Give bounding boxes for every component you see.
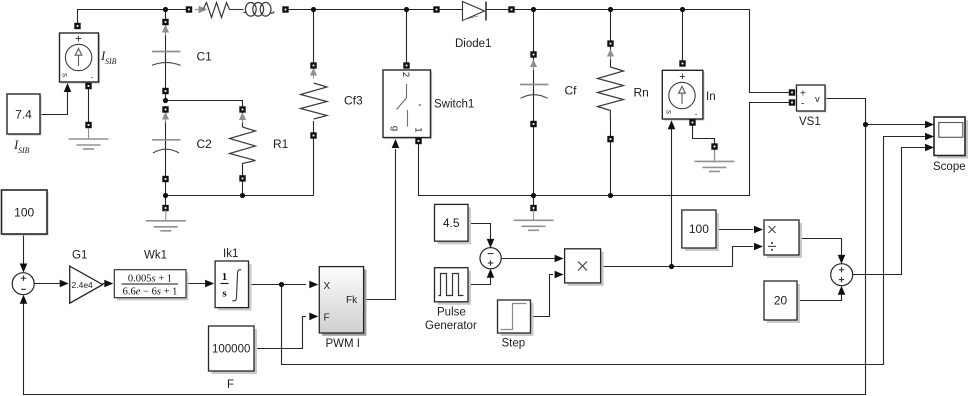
wire 7.4 to ISIB control (40, 92, 68, 115)
wire Cf3 bottom to left rail (313, 138, 315, 196)
ground right rail (514, 209, 554, 230)
pin port Rn top (607, 40, 613, 46)
pin port left rail ground (162, 205, 168, 211)
constant block 4.5 (435, 204, 472, 244)
pin arrow PWM F input (309, 313, 318, 321)
svg-text:g: g (390, 126, 401, 131)
pin arrow In s input (668, 120, 676, 129)
svg-text:Fk: Fk (346, 295, 358, 306)
svg-text:20: 20 (774, 294, 788, 308)
svg-text:X: X (324, 281, 331, 292)
voltmeter block VS1 (797, 85, 827, 113)
svg-text:Diode1: Diode1 (455, 38, 491, 50)
wire sum1 to gain G1 (34, 283, 61, 285)
constant block 20 (764, 281, 800, 323)
pin port Cf3 top (310, 62, 316, 68)
inductor series L (top) (244, 3, 275, 17)
wire Cf ground stem (533, 196, 535, 207)
summing junction sum1 (12, 273, 34, 295)
pin port R1 bottom (239, 175, 245, 181)
divide block (764, 220, 802, 258)
wire X branch to scope input2 (282, 137, 927, 365)
pin arrow PWM X input (309, 281, 318, 289)
capacitor Cf (520, 61, 549, 99)
wire product to divide input (733, 247, 754, 267)
svg-text:2: 2 (400, 72, 411, 77)
svg-text:1: 1 (222, 271, 228, 283)
svg-text:s: s (665, 110, 674, 114)
pin port C2 bottom (162, 176, 168, 182)
wire C1 bottom stem (165, 55, 167, 101)
wire top rail left segment (78, 10, 190, 24)
wire Rn bottom stem (610, 117, 612, 196)
junction node top rail at In (680, 7, 685, 12)
pin port VS1 minus (789, 99, 795, 105)
svg-text:Ik1: Ik1 (223, 248, 238, 260)
pin arrow Scope input1 (925, 121, 934, 129)
wire VS1 feedback down and left to sum1 (24, 125, 866, 395)
svg-text:6.6e − 6s + 1: 6.6e − 6s + 1 (123, 287, 178, 298)
pin arrow divide input1 (754, 226, 763, 234)
svg-text:Rn: Rn (634, 86, 649, 100)
wire Cf3 zigzag bottom lead (313, 121, 315, 133)
svg-text:Wk1: Wk1 (144, 250, 167, 262)
pin arrow Wk1 input (104, 280, 113, 288)
wire C2 top stem (165, 106, 167, 145)
junction node C1-C2 midpoint (163, 98, 168, 103)
constant block 100 (right) (682, 210, 719, 251)
junction node Ik1 output branch (279, 282, 284, 287)
junction node left rail at C2 (163, 193, 168, 198)
pin arrow Scope input3 (925, 144, 934, 152)
pin arrow G1 input (60, 280, 69, 288)
wire 100 constant to sum1 (23, 234, 25, 266)
ground below ISIB (69, 128, 109, 149)
wire step to product (530, 275, 553, 317)
pin arrow series branch direction (195, 7, 206, 13)
wire Cf mid stems (533, 58, 535, 96)
junction node VS1 output branch (863, 122, 868, 127)
svg-text:Generator: Generator (425, 320, 477, 332)
pulse generator block (435, 268, 472, 305)
pin port Cf bottom (530, 121, 536, 127)
junction node right rail at Rn (608, 193, 613, 198)
pin port Cf top (530, 51, 536, 57)
svg-text:100000: 100000 (212, 344, 250, 356)
wire Cf top stem (533, 10, 535, 53)
wire Cf3 top stem (313, 10, 315, 64)
pin port C2 top (162, 106, 168, 112)
pin port right rail ground (530, 205, 536, 211)
pin arrow Ik1 input (205, 280, 214, 288)
wire R1 top stem (242, 112, 244, 127)
pin port ISIB top (74, 23, 80, 29)
pin port VS1 plus (789, 89, 795, 95)
wire Wk1 to Ik1 (186, 283, 208, 285)
svg-text:7.4: 7.4 (15, 108, 32, 122)
pin arrow sum1 top input (20, 264, 28, 273)
svg-text:F: F (324, 313, 330, 324)
wire F constant to PWM F (254, 317, 306, 349)
capacitor C1 (152, 26, 181, 65)
wire R1 bottom stem (242, 163, 244, 196)
svg-text:100: 100 (689, 222, 709, 236)
wire In minus to ground (693, 124, 715, 144)
wire C1 top stem (165, 10, 167, 61)
junction node right rail at Cf (531, 193, 536, 198)
constant block 100 (reference) (2, 190, 49, 236)
pin arrow divide input2 (754, 243, 763, 251)
resistor R1 (230, 114, 256, 164)
pin arrow sum2 bottom input (838, 286, 846, 295)
svg-text:In: In (706, 91, 716, 103)
wire node C1-C2 branch to R1 (166, 101, 243, 110)
constant block F 100000 (209, 326, 258, 374)
svg-text:+: + (75, 34, 82, 46)
pin port series branch output (282, 6, 288, 12)
wire sum3 to product (501, 258, 557, 260)
svg-text:C1: C1 (197, 50, 213, 64)
step block (498, 300, 534, 336)
junction node top rail at Switch1 (404, 7, 409, 12)
wire R to L (230, 9, 244, 11)
ground left rail (146, 210, 186, 231)
pin arrow ISIB s input (64, 83, 72, 92)
junction node top rail at Rn (608, 7, 613, 12)
wire Rn top stem (610, 10, 612, 43)
svg-text:G1: G1 (72, 250, 87, 262)
junction node top rail at C1 (163, 7, 168, 12)
pin port Diode1 cathode (508, 6, 514, 12)
svg-text:-: - (91, 73, 94, 82)
scope block Scope (934, 117, 968, 159)
svg-text:Cf3: Cf3 (344, 94, 363, 108)
svg-text:Switch1: Switch1 (434, 99, 474, 111)
wire PWM Fk to switch gate (364, 149, 396, 300)
svg-text:Scope: Scope (933, 161, 966, 173)
svg-text:-: - (801, 99, 804, 110)
wire divide to sum2 (799, 239, 842, 257)
current source U In (662, 70, 704, 120)
svg-text:Step: Step (502, 338, 526, 350)
svg-text:v: v (815, 94, 820, 105)
wire VS1 output to scope junction (826, 99, 866, 125)
resistor Cf3 (301, 69, 328, 119)
pin port Diode1 anode (433, 6, 439, 12)
switch U Switch1 (383, 70, 432, 139)
wire In top stem (682, 10, 684, 62)
gain G1 (70, 266, 103, 303)
pin port Cf3 bottom (310, 132, 316, 138)
junction node left rail at R1 (240, 193, 245, 198)
constant block 7.4 (7, 94, 42, 136)
pin arrow product input1 (555, 255, 564, 263)
wire RL branch to Cf3 node (286, 9, 436, 11)
diode Diode1 (463, 2, 487, 21)
svg-text:4.5: 4.5 (443, 216, 460, 230)
resistor Rn (598, 50, 624, 117)
integrator block Ik1 (215, 261, 251, 311)
summing junction sum3 (480, 248, 501, 269)
svg-text:SIB: SIB (105, 57, 117, 66)
subsystem block PWM I (319, 267, 366, 336)
wire In control signal riser (671, 127, 673, 267)
ground below In (695, 150, 735, 171)
junction node top rail at Cf (531, 7, 536, 12)
svg-text:F: F (227, 379, 234, 391)
svg-text:2.4e4: 2.4e4 (72, 280, 94, 290)
pin port Switch1 terminal2 (403, 62, 409, 68)
pin port In minus (689, 119, 695, 125)
pin arrow sum3 bottom input (487, 269, 495, 278)
transfer function block Wk1 (114, 270, 188, 301)
wire junction to Scope input1 (866, 124, 927, 126)
svg-text:s: s (222, 288, 227, 300)
wire left rail ground stem (165, 196, 167, 207)
product block x (565, 249, 604, 286)
svg-text:+: + (679, 71, 685, 83)
svg-text:R1: R1 (273, 137, 289, 151)
wire Ik1 to PWM X (249, 284, 307, 286)
pin port C1 top (162, 19, 168, 25)
svg-text:100: 100 (14, 206, 34, 220)
svg-text:Cf: Cf (565, 84, 578, 98)
wire pulse generator to sum3 (468, 276, 491, 285)
summing junction sum2 (831, 264, 853, 286)
svg-text:C2: C2 (197, 137, 213, 151)
wire left ground rail (166, 195, 314, 197)
pin port In top (679, 60, 685, 66)
svg-text:s: s (61, 73, 70, 77)
wire Cf bottom stem (533, 127, 535, 196)
wire diode cathode lead (486, 9, 510, 11)
svg-text:-: - (695, 110, 698, 119)
wire ISIB minus to ground (88, 89, 90, 122)
wire top rail right segment to corner (513, 10, 789, 93)
pin arrow product input2 (555, 271, 564, 279)
wire product output (601, 266, 733, 268)
wire 100b to divide (716, 229, 753, 231)
wire 4.5 to sum3 (468, 224, 491, 241)
pin arrow Switch1 gate input (392, 139, 400, 148)
svg-text:SIB: SIB (18, 146, 30, 155)
pin port Rn bottom (607, 136, 613, 142)
pin arrow sum2 top input (838, 255, 846, 264)
svg-text:0.005s + 1: 0.005s + 1 (128, 274, 172, 285)
wire switch top stem (406, 10, 408, 63)
pin port C1 bottom (162, 88, 168, 94)
pin port In ground (711, 143, 717, 149)
pin port ISIB minus (85, 83, 91, 89)
wire diode anode lead (438, 9, 463, 11)
wire 20 to sum2 (797, 292, 842, 301)
svg-text:VS1: VS1 (799, 116, 821, 128)
pin arrow sum1 bottom input (20, 295, 28, 304)
pin port Switch1 terminal1 (415, 138, 421, 144)
wire switch port1 down to right rail (419, 103, 790, 196)
svg-text:Pulse: Pulse (437, 307, 466, 319)
svg-text:1: 1 (413, 127, 424, 132)
pin port series branch input (186, 6, 192, 12)
current source U ISIB (60, 33, 101, 84)
pin port R1 top (239, 106, 245, 112)
wire C2 bottom stem (165, 141, 167, 196)
pin arrow Scope input2 (925, 133, 934, 141)
svg-text:PWM I: PWM I (326, 338, 361, 350)
resistor series R (top) (203, 3, 230, 18)
pin port ISIB ground (85, 122, 91, 128)
wire G1 to Wk1 (103, 283, 107, 285)
junction node top rail at Cf3 (311, 7, 316, 12)
pin arrow sum3 top input (487, 239, 495, 248)
wire sum2 output to scope input3 (853, 148, 927, 275)
junction node product output branch (669, 264, 674, 269)
capacitor C2 (152, 113, 181, 153)
